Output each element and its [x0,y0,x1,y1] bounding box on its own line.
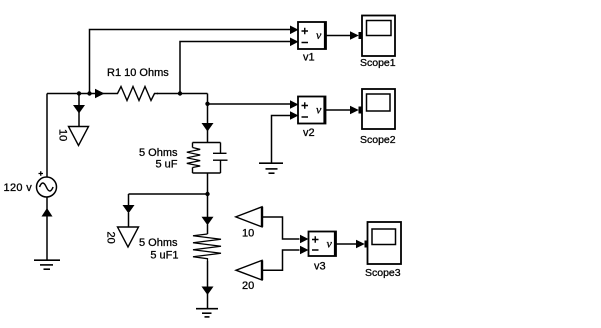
label 10 rotated [57,129,69,141]
wire gain10b to v3 plus [263,217,300,239]
wire v2 to Scope2 [326,109,352,111]
wire source top [46,94,48,178]
svg-text:v: v [316,28,322,42]
wire E to gain20 [129,194,208,227]
wire main horizontal node A [47,93,208,95]
gain G20 down triangle [118,227,139,247]
svg-text:20: 20 [105,232,117,244]
gain G10b left triangle [236,207,300,240]
voltage measurement v3 [300,232,365,273]
arrow down into ground G2 [202,287,214,296]
wire RC1 output down [207,173,209,194]
arrow down into RC1 [202,123,214,132]
arrow up into source [42,208,53,217]
arrow right on main wire [95,89,105,99]
arrow down into gain10 rotated [73,105,85,114]
node dot at wire E [205,192,209,196]
voltage measurement v1 [290,22,359,64]
ground G2 [196,309,218,317]
svg-text:Scope3: Scope3 [365,267,401,279]
svg-text:v: v [316,103,322,117]
gain G20b left triangle [236,250,300,292]
wire gain20b to v3 minus [263,250,300,270]
resistor RC1 zig [187,148,200,168]
wire source bottom [46,198,48,261]
svg-text:5 Ohms: 5 Ohms [139,147,178,159]
svg-text:5 Ohms: 5 Ohms [139,237,178,249]
wire C to v2 plus [208,103,291,105]
wire A to v1 plus [90,30,291,94]
wire series branch to ground [207,261,209,309]
arrow down into series branch [202,217,214,226]
svg-text:v3: v3 [314,261,326,273]
ground G1 under source [34,260,60,269]
voltage source V 120v [37,171,57,197]
svg-text:5 uF1: 5 uF1 [150,250,178,262]
scope Scope3 [365,222,402,279]
node dot at wire C [205,102,209,106]
wire branch to gain10 [78,94,80,127]
svg-text:20: 20 [242,280,254,292]
scope Scope2 [359,89,396,146]
svg-text:Scope1: Scope1 [360,57,396,69]
svg-text:v1: v1 [303,52,315,64]
parallel RLC branch RC1 [187,143,228,174]
arrow down into gain20 rotated [123,205,135,214]
node dot at wire B [178,91,182,95]
node dot at branch gain10 [77,91,81,95]
voltage measurement v2 [290,97,359,140]
label 20 rotated [105,232,117,244]
svg-text:10: 10 [242,228,254,240]
svg-text:120 v: 120 v [4,182,33,194]
capacitor RC1 [213,152,227,154]
series RLC branch RC2 zigzag [193,234,221,261]
wire vertical main [207,94,209,143]
wire v3 to Scope3 [336,243,357,245]
wire vertical to series branch [207,194,209,234]
svg-text:10: 10 [57,129,69,141]
svg-text:R1 10 Ohms: R1 10 Ohms [107,67,169,79]
svg-text:v: v [327,237,333,251]
svg-text:Scope2: Scope2 [360,134,396,146]
wire v1 to Scope1 [326,35,351,37]
gain G10 down triangle [69,127,89,146]
scope Scope1 [359,16,396,70]
resistor R1 [114,87,158,101]
svg-text:v2: v2 [303,127,315,139]
wire D ground to v2 minus [272,116,291,164]
node dot at wire A [87,91,91,95]
ground G3 for v2 [259,163,283,173]
svg-text:5 uF: 5 uF [155,159,177,171]
wire B to v1 minus [180,42,290,94]
